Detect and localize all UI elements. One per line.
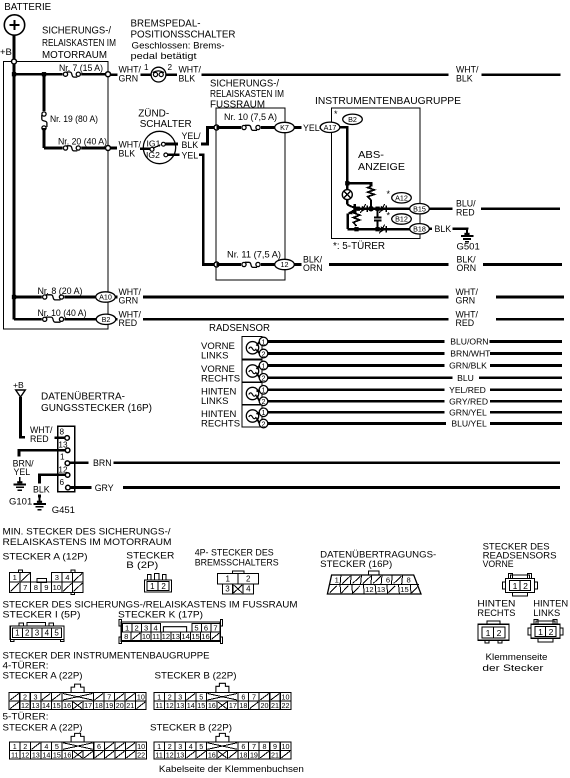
wire to resistor R1 top bbox=[347, 183, 371, 186]
pin 13 terminal bbox=[65, 448, 70, 453]
wire into brake switch pin1 bbox=[141, 73, 152, 76]
svg-text:LINKS: LINKS bbox=[201, 350, 228, 361]
wire K7 to YEL label bbox=[295, 126, 302, 129]
svg-text:17: 17 bbox=[84, 701, 92, 710]
connector view radsensor hinten rechts bbox=[487, 621, 500, 625]
svg-text:der Stecker: der Stecker bbox=[482, 663, 543, 674]
wire sensor GRY/RED left bbox=[268, 400, 445, 403]
svg-text:8: 8 bbox=[124, 632, 128, 641]
svg-text:pedal betätigt: pedal betätigt bbox=[131, 51, 197, 62]
sensor pin 1 bbox=[259, 386, 268, 395]
svg-text:STECKER I (5P): STECKER I (5P) bbox=[3, 610, 81, 621]
svg-text:12: 12 bbox=[365, 585, 373, 594]
svg-text:4: 4 bbox=[45, 629, 50, 638]
pin 8 terminal bbox=[65, 436, 70, 441]
svg-text:GRN: GRN bbox=[456, 296, 476, 306]
svg-text:*: * bbox=[387, 210, 391, 220]
wire pin13 to BRN/YEL bbox=[19, 450, 65, 456]
terminal oval A17 bbox=[320, 122, 340, 132]
svg-text:G101: G101 bbox=[9, 497, 32, 508]
svg-text:RED: RED bbox=[119, 318, 138, 328]
svg-text:3: 3 bbox=[55, 573, 59, 582]
svg-text:2: 2 bbox=[523, 581, 528, 591]
svg-text:12: 12 bbox=[162, 632, 170, 641]
connector view stecker B 2P bbox=[148, 575, 152, 581]
svg-text:7: 7 bbox=[23, 583, 27, 592]
svg-text:16: 16 bbox=[63, 701, 71, 710]
wire BLK/ORN long bbox=[329, 263, 448, 266]
svg-text:BLK: BLK bbox=[179, 74, 196, 84]
svg-text:12: 12 bbox=[166, 701, 174, 710]
node terminal into fussraum fuse Nr.11 bbox=[214, 262, 219, 267]
svg-text:YEL: YEL bbox=[182, 150, 199, 160]
svg-text:RADSENSOR: RADSENSOR bbox=[209, 323, 270, 334]
connector view radsensor vorne bbox=[509, 574, 513, 579]
svg-text:MOTORRAUM: MOTORRAUM bbox=[42, 50, 107, 61]
svg-text:Geschlossen: Brems-: Geschlossen: Brems- bbox=[132, 41, 225, 52]
svg-text:+B: +B bbox=[13, 380, 24, 390]
svg-text:2: 2 bbox=[497, 628, 502, 638]
svg-text:GRN: GRN bbox=[119, 74, 139, 84]
svg-text:12: 12 bbox=[21, 701, 29, 710]
wire stub to pin 8 bbox=[55, 436, 66, 439]
svg-text:A17: A17 bbox=[324, 123, 337, 132]
wire WHT/GRN right end bbox=[496, 296, 564, 299]
wire fuse Nr.20 row bbox=[44, 147, 108, 150]
svg-text:15: 15 bbox=[191, 632, 199, 641]
svg-text:17: 17 bbox=[229, 701, 237, 710]
svg-text:LINKS: LINKS bbox=[201, 396, 228, 407]
resistor R2 bbox=[353, 212, 359, 227]
diode D3 bbox=[381, 226, 386, 232]
svg-text:BLU: BLU bbox=[457, 373, 474, 383]
svg-text:6: 6 bbox=[60, 478, 65, 487]
connector view dlc 16P bbox=[368, 571, 379, 575]
dlc box outline bbox=[58, 426, 75, 492]
wire row2 bbox=[348, 228, 410, 231]
connector view stecker A 12P bbox=[19, 570, 23, 573]
svg-text:Nr. 11 (7,5 A): Nr. 11 (7,5 A) bbox=[227, 250, 281, 260]
terminal oval 12 bbox=[275, 259, 295, 269]
svg-text:LINKS: LINKS bbox=[533, 608, 560, 619]
brake pedal position switch bbox=[151, 67, 166, 82]
svg-text:5: 5 bbox=[199, 742, 203, 751]
fuse Nr.19 (80A) bbox=[41, 111, 47, 131]
svg-text:18: 18 bbox=[239, 701, 247, 710]
svg-text:2: 2 bbox=[246, 575, 251, 584]
fuse Nr.7 (15A) bbox=[63, 71, 82, 77]
svg-text:ORN: ORN bbox=[303, 263, 323, 273]
svg-text:STECKER A (12P): STECKER A (12P) bbox=[3, 552, 88, 563]
svg-text:21: 21 bbox=[126, 701, 134, 710]
svg-text:BRN: BRN bbox=[93, 458, 112, 468]
svg-text:B15: B15 bbox=[413, 204, 426, 213]
svg-text:22: 22 bbox=[282, 701, 290, 710]
wire YEL to fussraum Nr.11 node bbox=[199, 155, 214, 265]
svg-text:B2: B2 bbox=[348, 115, 357, 124]
wire fuse Nr.7 row bbox=[14, 73, 108, 76]
svg-text:18: 18 bbox=[239, 750, 247, 759]
wire battery to +B bus bbox=[13, 35, 16, 74]
terminal oval B2 instrument bbox=[343, 114, 363, 124]
svg-text:RECHTS: RECHTS bbox=[477, 608, 515, 619]
junction row2 cap bbox=[375, 227, 379, 231]
node terminal Nr.7 output bbox=[106, 72, 111, 77]
svg-text:4: 4 bbox=[65, 573, 69, 582]
transistor Q1 bbox=[346, 200, 348, 205]
wire GRY long bbox=[123, 486, 560, 489]
wire sensor GRN/BLK right bbox=[490, 364, 562, 367]
svg-text:STECKER A (22P): STECKER A (22P) bbox=[3, 671, 83, 682]
wire A17 into cluster down bbox=[340, 127, 348, 183]
wire YEL/BLK to fussraum box node bbox=[201, 128, 214, 145]
junction lamp branch bbox=[345, 181, 349, 185]
lamp ABS indicator bbox=[346, 183, 349, 189]
svg-text:BLK: BLK bbox=[182, 140, 199, 150]
svg-text:14: 14 bbox=[181, 632, 189, 641]
wire into ignition switch bbox=[140, 147, 150, 150]
svg-text:4: 4 bbox=[189, 742, 193, 751]
svg-text:1: 1 bbox=[262, 386, 266, 395]
wire pin1 stub bbox=[70, 461, 89, 464]
svg-text:1: 1 bbox=[486, 628, 491, 638]
svg-text:VORNE: VORNE bbox=[483, 559, 514, 570]
svg-text:8: 8 bbox=[34, 583, 38, 592]
svg-text:10: 10 bbox=[282, 742, 290, 751]
svg-text:BLK: BLK bbox=[456, 74, 473, 84]
ground G101 bbox=[19, 477, 21, 483]
wire sensor BLU/YEL left bbox=[268, 422, 446, 425]
svg-text:DATENÜBERTRA-: DATENÜBERTRA- bbox=[41, 391, 125, 403]
svg-text:6: 6 bbox=[386, 576, 390, 585]
sensor coil symbol bbox=[246, 410, 258, 422]
terminal oval A12 bbox=[392, 193, 412, 203]
svg-text:*: 5-TÜRER: *: 5-TÜRER bbox=[333, 240, 385, 252]
svg-text:SICHERUNGS-/: SICHERUNGS-/ bbox=[42, 26, 111, 37]
wire B15 to BLU/RED label bbox=[429, 207, 452, 210]
wire WHT/BLK right end bbox=[482, 73, 561, 76]
svg-text:Nr. 10 (7,5 A): Nr. 10 (7,5 A) bbox=[224, 112, 277, 122]
fuse/relay box footwell outline bbox=[216, 108, 285, 280]
svg-text:B (2P): B (2P) bbox=[126, 560, 158, 571]
svg-text:ZÜND-: ZÜND- bbox=[138, 108, 169, 120]
svg-text:SCHALTER: SCHALTER bbox=[140, 119, 192, 130]
svg-text:B2: B2 bbox=[102, 315, 111, 324]
svg-text:BATTERIE: BATTERIE bbox=[4, 2, 51, 13]
svg-text:STECKER (16P): STECKER (16P) bbox=[320, 559, 392, 570]
svg-text:G451: G451 bbox=[52, 505, 75, 516]
fuse Nr.11 (7,5A) bbox=[241, 261, 261, 267]
svg-text:RELAISKASTEN IM: RELAISKASTEN IM bbox=[42, 38, 116, 49]
svg-text:3: 3 bbox=[225, 585, 230, 594]
svg-text:B18: B18 bbox=[413, 224, 426, 233]
node +B terminal on box edge bbox=[12, 59, 17, 64]
wire pin12 to G451 bbox=[40, 475, 66, 484]
svg-text:MIN. STECKER DES SICHERUNGS-/: MIN. STECKER DES SICHERUNGS-/ bbox=[3, 527, 171, 538]
wire R1 to row1 bbox=[370, 200, 372, 209]
svg-text:IG1: IG1 bbox=[147, 139, 161, 149]
svg-text:18: 18 bbox=[95, 701, 103, 710]
wire sensor BLU right bbox=[479, 376, 562, 379]
svg-text:13: 13 bbox=[176, 701, 184, 710]
svg-text:BLU/ORN: BLU/ORN bbox=[450, 337, 488, 347]
svg-text:13: 13 bbox=[377, 585, 385, 594]
svg-text:STECKER A (22P): STECKER A (22P) bbox=[3, 723, 83, 734]
wire BRN long bbox=[114, 461, 561, 464]
svg-text:12: 12 bbox=[166, 750, 174, 759]
wire fuse Nr.10(40A) row bbox=[14, 318, 96, 321]
wire sensor YEL/RED right bbox=[490, 388, 562, 391]
ignition movable contact bbox=[150, 147, 154, 151]
wire WHT/GRN long bbox=[143, 296, 448, 299]
svg-text:BREMSPEDAL-: BREMSPEDAL- bbox=[131, 19, 201, 30]
ground G501 bbox=[466, 229, 468, 235]
svg-text:+B: +B bbox=[0, 47, 12, 58]
svg-text:2: 2 bbox=[262, 374, 266, 383]
wheel sensor hinten links box bbox=[242, 383, 262, 405]
svg-text:Nr. 10 (40 A): Nr. 10 (40 A) bbox=[38, 308, 87, 318]
svg-text:14: 14 bbox=[42, 750, 50, 759]
terminal oval B15 bbox=[410, 204, 430, 214]
fuse Nr.20 (40A) bbox=[63, 145, 82, 151]
svg-text:13: 13 bbox=[32, 701, 40, 710]
wire sensor BRN/WHT left bbox=[268, 352, 445, 355]
svg-text:BREMSSCHALTERS: BREMSSCHALTERS bbox=[195, 557, 279, 568]
svg-text:16: 16 bbox=[201, 632, 209, 641]
junction bus/Nr.7 bbox=[12, 72, 16, 76]
junction row2 R2 bbox=[354, 227, 358, 231]
svg-text:INSTRUMENTENBAUGRUPPE: INSTRUMENTENBAUGRUPPE bbox=[315, 96, 461, 107]
svg-text:2: 2 bbox=[549, 627, 554, 637]
svg-text:8: 8 bbox=[60, 428, 65, 437]
wire BLU/RED right end bbox=[481, 207, 560, 210]
wire from brake switch pin2 bbox=[166, 73, 178, 76]
svg-text:Nr. 20 (40 A): Nr. 20 (40 A) bbox=[58, 137, 107, 147]
svg-text:STECKER B (22P): STECKER B (22P) bbox=[155, 671, 237, 682]
wire sensor BLU/ORN right bbox=[490, 340, 562, 343]
wire YEL into instrument A17 bbox=[320, 126, 322, 129]
fuse/relay box engine compartment outline bbox=[4, 62, 109, 330]
svg-text:5-TÜRER:: 5-TÜRER: bbox=[3, 712, 49, 723]
wire emitter down to row2 bbox=[346, 214, 349, 230]
svg-text:Nr. 7 (15 A): Nr. 7 (15 A) bbox=[59, 63, 103, 73]
svg-text:Nr. 8 (20 A): Nr. 8 (20 A) bbox=[38, 286, 83, 296]
svg-text:3: 3 bbox=[35, 629, 40, 638]
svg-text:1: 1 bbox=[225, 575, 230, 584]
svg-text:A12: A12 bbox=[395, 193, 408, 202]
svg-text:16: 16 bbox=[208, 701, 216, 710]
svg-text:BLU/YEL: BLU/YEL bbox=[451, 419, 487, 429]
wire B18 stub bbox=[429, 228, 432, 231]
wire sensor YEL/RED left bbox=[268, 388, 445, 391]
svg-text:13: 13 bbox=[172, 632, 180, 641]
wire IG1 to YEL/BLK label bbox=[165, 143, 178, 146]
svg-text:5: 5 bbox=[54, 629, 59, 638]
sensor coil symbol bbox=[246, 365, 258, 377]
connector view 4-türer stecker A 22P bbox=[71, 684, 84, 692]
wire WHT/RED long bbox=[143, 318, 448, 321]
svg-text:11: 11 bbox=[11, 750, 18, 759]
svg-text:10: 10 bbox=[53, 583, 61, 592]
wire fuse Nr.10 7.5A row bbox=[217, 126, 276, 129]
svg-text:Kabelseite der Klemmenbuchsen: Kabelseite der Klemmenbuchsen bbox=[159, 764, 304, 775]
svg-text:11: 11 bbox=[152, 632, 160, 641]
svg-text:ORN: ORN bbox=[457, 263, 477, 273]
svg-text:GUNGSSTECKER (16P): GUNGSSTECKER (16P) bbox=[41, 403, 152, 414]
svg-text:1: 1 bbox=[144, 63, 149, 72]
junction row1 cap bbox=[375, 207, 379, 211]
junction Nr.7/Nr.19 branch bbox=[42, 72, 46, 76]
svg-text:2: 2 bbox=[168, 63, 173, 72]
pin 12 terminal bbox=[65, 473, 70, 478]
svg-text:G501: G501 bbox=[457, 241, 480, 252]
svg-text:13: 13 bbox=[176, 750, 184, 759]
svg-text:SICHERUNGS-/: SICHERUNGS-/ bbox=[210, 79, 279, 90]
wire WHT/BLK long to right bbox=[202, 73, 449, 76]
svg-text:14: 14 bbox=[187, 701, 195, 710]
svg-text:21: 21 bbox=[271, 750, 279, 759]
sensor pin 2 bbox=[259, 349, 268, 358]
svg-text:GRY: GRY bbox=[95, 483, 114, 493]
ground G451 bbox=[39, 497, 41, 503]
sensor pin 1 bbox=[259, 361, 268, 370]
sensor pin 2 bbox=[259, 397, 268, 406]
wire sensor GRY/RED right bbox=[490, 400, 562, 403]
svg-text:BRN/WHT: BRN/WHT bbox=[450, 349, 491, 359]
svg-text:19: 19 bbox=[250, 750, 258, 759]
svg-text:2: 2 bbox=[135, 624, 139, 633]
sensor pin 1 bbox=[259, 337, 268, 346]
svg-text:15: 15 bbox=[53, 701, 61, 710]
wire sensor GRN/BLK left bbox=[268, 364, 445, 367]
svg-text:8: 8 bbox=[406, 576, 410, 585]
connector view stecker K 17P bbox=[119, 619, 121, 626]
svg-text:B12: B12 bbox=[395, 215, 408, 224]
svg-text:Klemmenseite: Klemmenseite bbox=[486, 652, 548, 663]
svg-text:K7: K7 bbox=[280, 123, 289, 132]
svg-text:12: 12 bbox=[281, 260, 289, 269]
diode D1 bbox=[362, 206, 367, 212]
svg-text:YEL/RED: YEL/RED bbox=[449, 385, 486, 395]
wire sensor BLU/YEL right bbox=[490, 422, 562, 425]
svg-text:1: 1 bbox=[262, 408, 266, 417]
junction row1 R1 bbox=[368, 206, 374, 212]
wire pin6 stub bbox=[70, 486, 91, 489]
svg-text:GRN/YEL: GRN/YEL bbox=[449, 407, 487, 417]
sensor coil symbol bbox=[246, 342, 258, 354]
wire sensor GRN/YEL right bbox=[490, 411, 562, 414]
svg-text:20: 20 bbox=[260, 701, 268, 710]
svg-text:STECKER K (17P): STECKER K (17P) bbox=[118, 610, 203, 621]
svg-text:2: 2 bbox=[262, 419, 266, 428]
pin 6 terminal bbox=[66, 485, 71, 490]
terminal oval A10 bbox=[96, 292, 116, 302]
connector view 4P brake switch bbox=[232, 571, 244, 573]
wheel sensor hinten rechts box bbox=[242, 405, 262, 427]
wire WHT/RED right end bbox=[496, 318, 564, 321]
svg-text:YEL: YEL bbox=[14, 467, 31, 477]
terminal oval K7 bbox=[275, 122, 295, 132]
svg-text:15: 15 bbox=[400, 585, 408, 594]
wire row1 base to B15 bbox=[355, 207, 410, 210]
svg-text:ABS-: ABS- bbox=[358, 150, 384, 161]
svg-text:11: 11 bbox=[155, 701, 162, 710]
svg-text:7: 7 bbox=[213, 624, 217, 633]
svg-text:13: 13 bbox=[32, 750, 40, 759]
wire BLK to ground segment bbox=[38, 495, 41, 498]
svg-text:1: 1 bbox=[538, 627, 543, 637]
svg-text:8: 8 bbox=[262, 742, 266, 751]
svg-text:POSITIONSSCHALTER: POSITIONSSCHALTER bbox=[131, 30, 236, 41]
svg-text:15: 15 bbox=[197, 701, 205, 710]
svg-text:4: 4 bbox=[246, 585, 251, 594]
svg-text:10: 10 bbox=[142, 632, 150, 641]
diode D2 bbox=[381, 206, 386, 212]
wire +B down to WHT/RED stub bbox=[21, 397, 26, 437]
svg-text:1: 1 bbox=[513, 581, 518, 591]
svg-text:1: 1 bbox=[262, 361, 266, 370]
contact IG2 bbox=[164, 153, 168, 157]
power symbol +B triangle bbox=[16, 390, 26, 397]
svg-text:7: 7 bbox=[252, 693, 256, 702]
wire sensor BLU left bbox=[268, 376, 453, 379]
sensor pin 2 bbox=[259, 374, 268, 383]
svg-text:BLK: BLK bbox=[119, 149, 136, 159]
junction row1 a bbox=[356, 207, 360, 211]
instrument cluster box outline bbox=[332, 108, 421, 239]
svg-text:14: 14 bbox=[42, 701, 50, 710]
svg-text:12: 12 bbox=[21, 750, 29, 759]
svg-text:GRY/RED: GRY/RED bbox=[449, 396, 488, 406]
wire from oval 12 to BLK/ORN label bbox=[295, 263, 302, 266]
connector view stecker I 5P bbox=[19, 623, 24, 626]
svg-text:16: 16 bbox=[208, 750, 216, 759]
terminal oval B18 bbox=[410, 224, 430, 234]
svg-text:9: 9 bbox=[44, 583, 48, 592]
wire IG2 to YEL label bbox=[168, 153, 180, 156]
capacitor C1 bbox=[377, 209, 379, 218]
connector view 5-türer stecker B 22P bbox=[216, 733, 229, 741]
svg-text:22: 22 bbox=[137, 750, 145, 759]
svg-text:BLK: BLK bbox=[435, 224, 452, 234]
svg-text:21: 21 bbox=[271, 701, 279, 710]
svg-text:RELAISKASTENS IM MOTORRAUM: RELAISKASTENS IM MOTORRAUM bbox=[3, 537, 172, 548]
wire WHT/BLK from fuse20 stub bbox=[111, 147, 118, 150]
sensor pin 1 bbox=[259, 408, 268, 417]
svg-text:1: 1 bbox=[15, 629, 20, 638]
svg-text:Nr. 19 (80 A): Nr. 19 (80 A) bbox=[50, 114, 98, 124]
svg-text:1: 1 bbox=[335, 576, 339, 585]
fuse Nr.10 (40A) bbox=[42, 316, 65, 322]
wire fuse Nr.19 to Nr.20 row bbox=[43, 128, 46, 148]
battery positive terminal symbol bbox=[4, 15, 24, 35]
svg-text:FUSSRAUM: FUSSRAUM bbox=[210, 99, 265, 110]
wire branch to fuse Nr.19 bbox=[43, 74, 46, 114]
svg-text:RED: RED bbox=[30, 434, 49, 444]
svg-text:RECHTS: RECHTS bbox=[201, 374, 240, 385]
wire sensor BLU/ORN left bbox=[268, 340, 445, 343]
node terminal into fussraum fuse Nr.10 bbox=[214, 125, 219, 130]
pin 1 terminal bbox=[65, 461, 70, 466]
svg-text:STECKER B (22P): STECKER B (22P) bbox=[150, 723, 232, 734]
svg-text:2: 2 bbox=[25, 629, 30, 638]
svg-text:GRN: GRN bbox=[119, 296, 139, 306]
svg-text:2: 2 bbox=[161, 582, 166, 591]
svg-text:1: 1 bbox=[262, 337, 266, 346]
svg-text:1: 1 bbox=[60, 453, 65, 462]
connector view 4-türer stecker B 22P bbox=[216, 683, 229, 692]
svg-text:ANZEIGE: ANZEIGE bbox=[358, 162, 405, 173]
